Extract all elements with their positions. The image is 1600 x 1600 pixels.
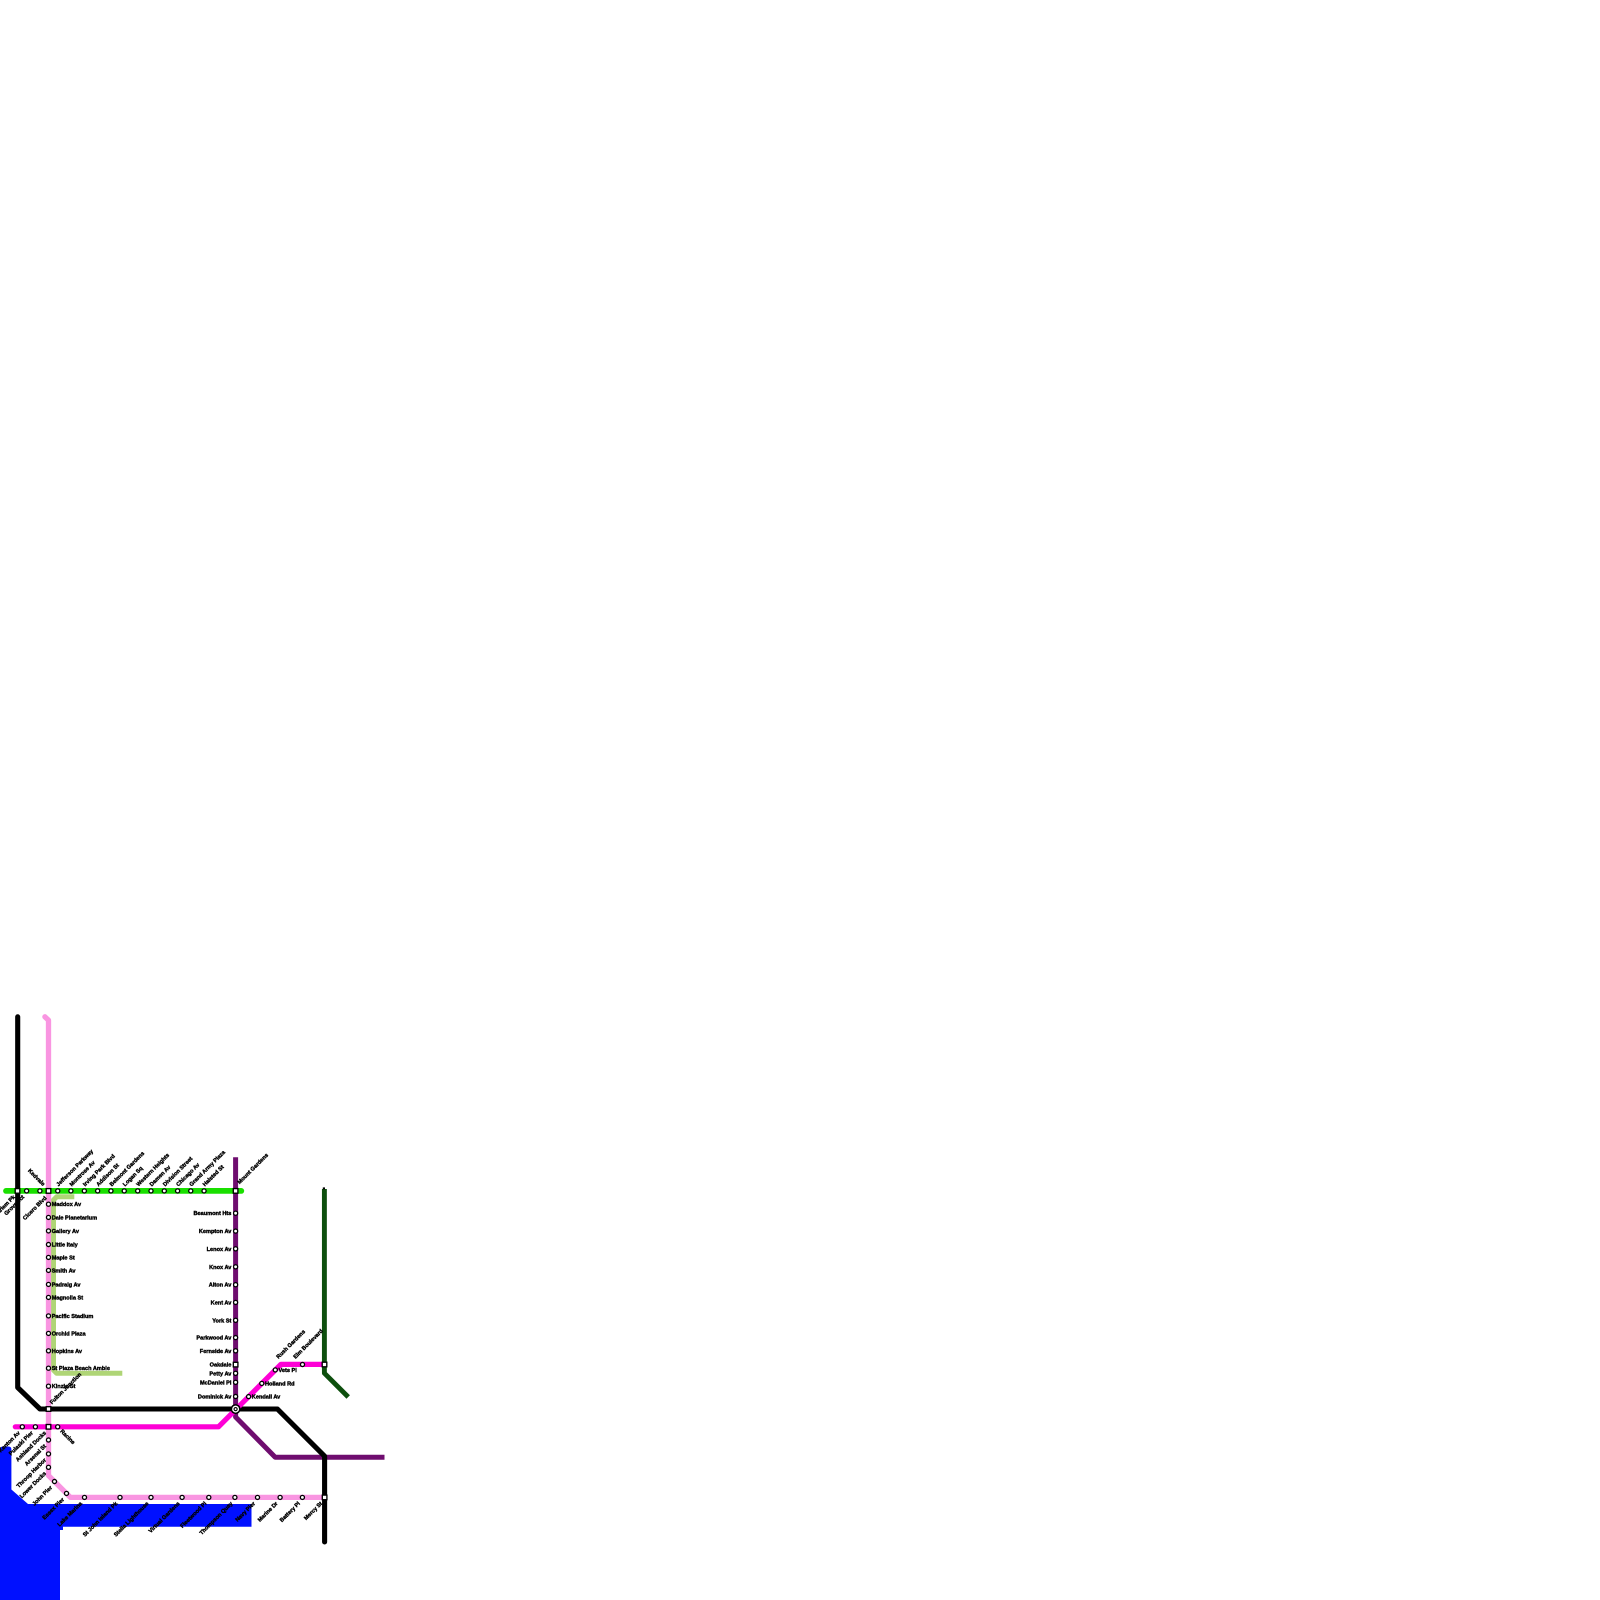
svg-text:Knox Av: Knox Av: [209, 1265, 232, 1271]
svg-text:Petty Av: Petty Av: [209, 1371, 232, 1377]
svg-text:St Plaza Beach Amble: St Plaza Beach Amble: [52, 1366, 110, 1372]
svg-text:Magnolia St: Magnolia St: [52, 1295, 84, 1301]
svg-text:Parkwood Av: Parkwood Av: [196, 1336, 232, 1342]
svg-text:Padraig Av: Padraig Av: [52, 1282, 82, 1288]
svg-text:Fernside Av: Fernside Av: [200, 1349, 232, 1355]
svg-text:Little Italy: Little Italy: [52, 1243, 79, 1249]
svg-text:Kendall Av: Kendall Av: [252, 1395, 281, 1401]
svg-text:Alton Av: Alton Av: [209, 1283, 232, 1289]
svg-text:Oakdale: Oakdale: [210, 1363, 232, 1369]
svg-text:Hopkins Av: Hopkins Av: [52, 1349, 83, 1355]
svg-text:Kempton Av: Kempton Av: [199, 1229, 232, 1235]
svg-text:Maple St: Maple St: [52, 1255, 75, 1261]
svg-text:Kent Av: Kent Av: [211, 1300, 233, 1306]
svg-text:Holland Rd: Holland Rd: [265, 1381, 295, 1387]
svg-text:Vets Pl: Vets Pl: [279, 1368, 298, 1374]
svg-text:Pacific Stadium: Pacific Stadium: [52, 1314, 94, 1320]
svg-text:York St: York St: [212, 1318, 231, 1324]
svg-text:Dale Planetarium: Dale Planetarium: [52, 1215, 97, 1221]
svg-text:Smith Av: Smith Av: [52, 1268, 77, 1274]
svg-text:Lenox Av: Lenox Av: [207, 1247, 233, 1253]
svg-text:Orchid Plaza: Orchid Plaza: [52, 1331, 87, 1337]
svg-text:McDaniel Pl: McDaniel Pl: [200, 1380, 232, 1386]
svg-text:Gallery Av: Gallery Av: [52, 1229, 80, 1235]
svg-text:Dominick Av: Dominick Av: [198, 1395, 232, 1401]
svg-text:Maddox Av: Maddox Av: [52, 1202, 82, 1208]
svg-text:Beaumont Hts: Beaumont Hts: [193, 1211, 231, 1217]
